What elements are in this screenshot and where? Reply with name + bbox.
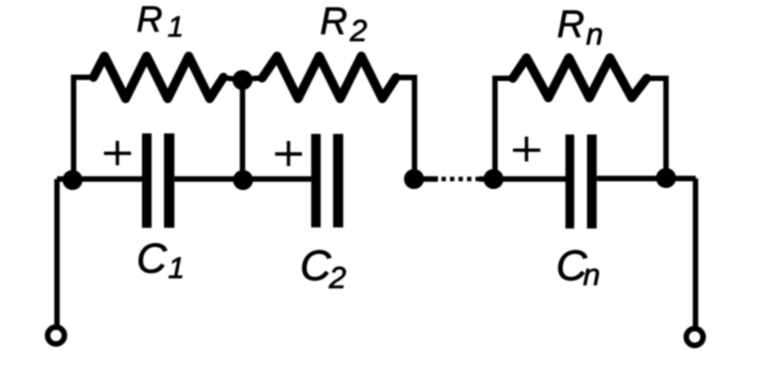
svg-text:2: 2: [328, 260, 346, 295]
svg-text:n: n: [583, 257, 600, 292]
node N5 on main line (right of Cn): [656, 168, 676, 188]
label R1: [137, 0, 184, 43]
capacitor C2 plus sign: [275, 141, 302, 166]
wire: Rn left vertical leg and top lead: [495, 78, 513, 179]
resistor R2: [262, 56, 396, 99]
node T1: junction of R1 and R2: [233, 70, 253, 90]
capacitor Cn plus sign: [513, 137, 540, 162]
wire: left drop from main line to terminal: [54, 179, 59, 325]
wire: R1 right top lead to node: [222, 78, 242, 80]
node N1 on main line (left): [63, 170, 83, 190]
svg-text:1: 1: [168, 11, 184, 43]
capacitor C2 left plate: [311, 134, 321, 228]
svg-text:n: n: [586, 16, 603, 51]
resistor Rn: [513, 58, 647, 98]
svg-text:C: C: [137, 235, 168, 282]
wire: Rn right top lead and vertical leg: [647, 78, 666, 178]
node N3 on main line (right of C2): [404, 169, 424, 189]
svg-text:1: 1: [168, 252, 185, 285]
wire: vertical from node T1 down to main line: [240, 80, 245, 179]
wire: dotted continuation between N3 and N4: [414, 176, 438, 181]
svg-text:C: C: [300, 242, 332, 290]
wire: R2 left top lead from node: [243, 78, 264, 79]
wire: right drop to terminal: [693, 179, 698, 328]
capacitor Cn left plate: [565, 135, 574, 229]
label R2: [320, 1, 367, 48]
wire: R2 right top lead and vertical leg: [395, 78, 415, 180]
wire: main line between C1 and C2: [175, 176, 312, 181]
node N4 on main line (left of Cn): [484, 169, 504, 189]
label Cn: [556, 242, 600, 292]
node N2 on main line below T1: [233, 170, 253, 190]
capacitor Cn right plate: [587, 135, 597, 229]
wire: main line left segment to C1 left plate: [57, 176, 143, 181]
terminal: right open circle: [686, 329, 703, 346]
label C1: [137, 235, 185, 285]
wire: main line Cn right to right corner: [597, 176, 696, 181]
svg-text:R: R: [137, 0, 163, 40]
wire: main line N4 to Cn left plate: [494, 176, 567, 181]
capacitor C2 right plate: [333, 134, 343, 228]
resistor R1: [93, 56, 223, 99]
capacitor C1 plus sign: [104, 141, 131, 165]
label Rn: [557, 4, 603, 51]
svg-text:R: R: [320, 1, 347, 43]
svg-text:R: R: [557, 4, 584, 46]
wire: R1 left vertical leg and top lead: [74, 77, 94, 179]
terminal: left open circle: [48, 327, 65, 344]
capacitor C1 right plate: [164, 133, 174, 227]
label C2: [300, 242, 346, 295]
capacitor C1 left plate: [142, 133, 152, 227]
svg-text:2: 2: [349, 13, 367, 48]
